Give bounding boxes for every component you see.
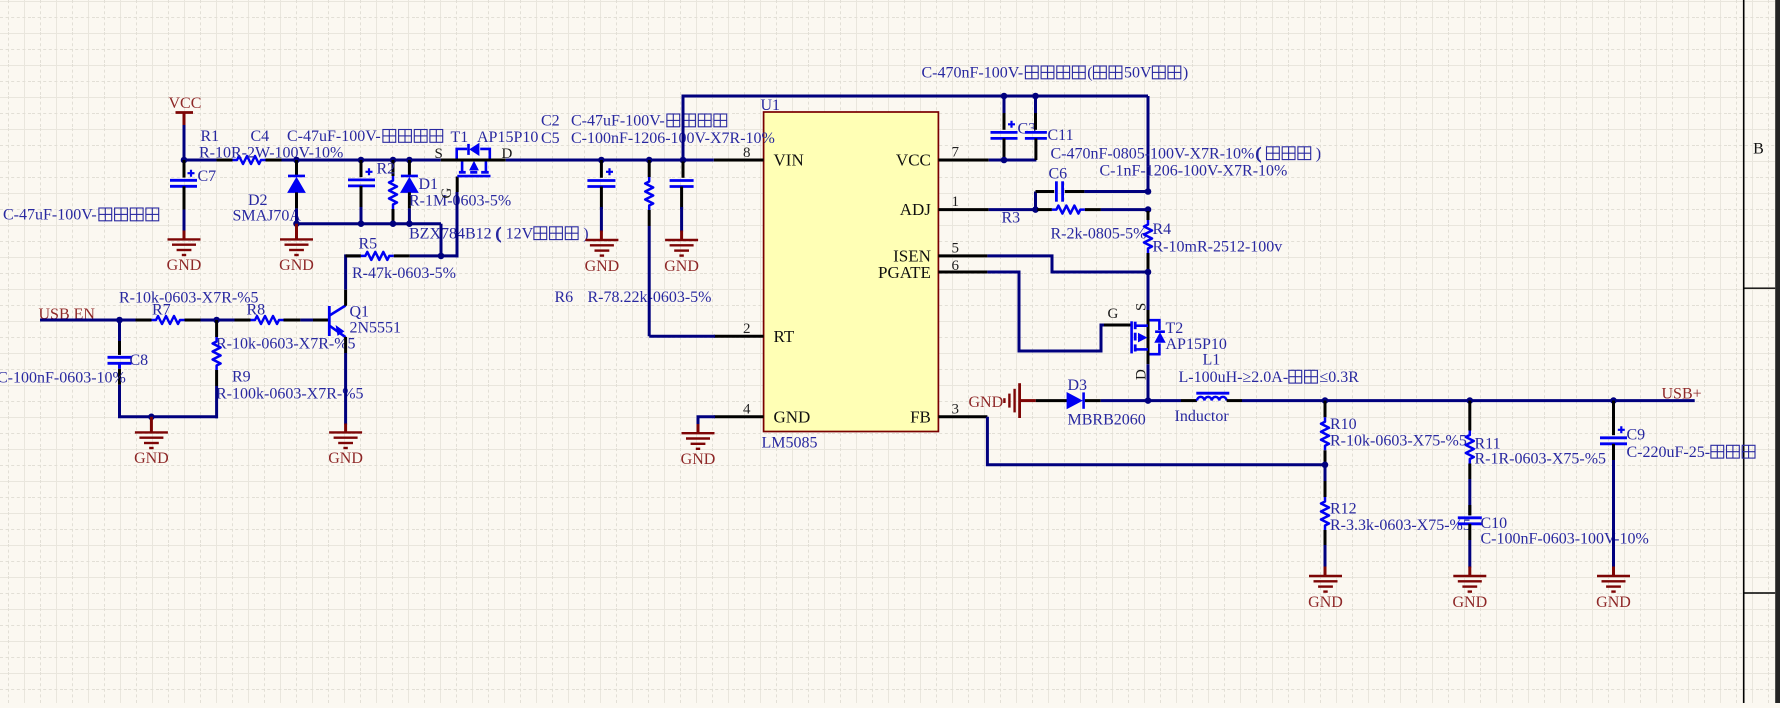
wire C6 to rail: [1084, 190, 1149, 193]
svg-text:MBRB2060: MBRB2060: [1068, 411, 1146, 428]
R6 value: [588, 289, 712, 306]
wire R11 to C10: [1468, 479, 1471, 516]
T2 pin label G: [1108, 306, 1119, 322]
wire C2 gnd: [600, 207, 603, 232]
node ADJ/C6: [1032, 206, 1039, 213]
C7 designator: [198, 168, 217, 185]
wire bottom rail: [297, 222, 442, 225]
wire R7 to R8: [201, 319, 235, 322]
zone divider lower: [1744, 592, 1776, 594]
U1 pin 4 GND: [714, 402, 811, 427]
svg-text:4: 4: [743, 402, 751, 418]
svg-text:): ): [1183, 65, 1188, 82]
zone letter B: [1753, 141, 1764, 158]
svg-text:C2: C2: [541, 113, 560, 130]
node C11 top: [1032, 93, 1039, 100]
wire C9 to gnd: [1612, 460, 1615, 568]
wire switch node to L1: [1148, 399, 1181, 402]
wire R5 row: [346, 254, 361, 257]
zone divider upper: [1744, 287, 1776, 289]
svg-text:R9: R9: [232, 368, 251, 385]
svg-text:AP15P10: AP15P10: [477, 129, 538, 146]
svg-text:D3: D3: [1068, 377, 1088, 394]
node C3 top: [1001, 93, 1008, 100]
svg-text:AP15P10: AP15P10: [1166, 336, 1227, 353]
C8 designator: [130, 352, 149, 369]
R7 designator: [152, 301, 171, 318]
ground Q1: [328, 432, 363, 467]
transistor T2 AP15P10 symbol: [1132, 320, 1165, 354]
wire T1 gate vertical: [456, 192, 459, 257]
T1 value AP15P10: [477, 129, 538, 146]
wire VCC pin to C11: [989, 159, 1037, 162]
wire R8 to Q1: [300, 319, 313, 322]
IC U1 LM5085 body: [764, 112, 939, 432]
svg-text:B: B: [1753, 141, 1764, 158]
svg-text:C11: C11: [1048, 127, 1074, 144]
svg-text:FB: FB: [910, 407, 931, 426]
svg-text:R8: R8: [247, 301, 266, 318]
wire USB_EN: [40, 319, 136, 322]
C7 comment: [3, 207, 159, 224]
sheet border right edge band: [1775, 0, 1780, 703]
svg-text:R-10k-0603-X7R-%5: R-10k-0603-X7R-%5: [119, 289, 259, 306]
svg-text:Inductor: Inductor: [1175, 408, 1230, 425]
D1 comment BZX784B12: [409, 225, 589, 242]
C11 designator: [1048, 127, 1074, 144]
svg-text:GND: GND: [664, 258, 699, 275]
node D2 bottom: [293, 220, 300, 227]
svg-text:R-3.3k-0603-X75-%5: R-3.3k-0603-X75-%5: [1330, 517, 1471, 534]
svg-text:5: 5: [952, 241, 960, 257]
resistor R11: [1466, 401, 1474, 479]
diode D1: [401, 160, 418, 208]
svg-text:1: 1: [952, 194, 960, 210]
svg-text:C-220uF-25-: C-220uF-25-: [1627, 444, 1711, 461]
wire top rail down to C6 node: [1147, 96, 1150, 192]
svg-text:C3: C3: [1018, 120, 1037, 137]
svg-text:3: 3: [952, 402, 960, 418]
Q1 collector pin: [344, 290, 347, 306]
svg-text:8: 8: [743, 145, 751, 161]
svg-text:R12: R12: [1330, 501, 1357, 518]
T2 pin label S rotated: [1134, 303, 1150, 311]
svg-text:C8: C8: [130, 352, 149, 369]
L1 comment: [1179, 369, 1360, 386]
node C8 top: [116, 317, 123, 324]
C6 designator: [1049, 165, 1068, 182]
U1 pin 5 ISEN: [893, 241, 987, 266]
T1 pin label S: [435, 146, 443, 162]
svg-text:R3: R3: [1002, 209, 1021, 226]
svg-text:ADJ: ADJ: [900, 200, 932, 219]
svg-text:): ): [1316, 145, 1321, 162]
R7 value: [119, 289, 259, 306]
R8 value: [216, 335, 356, 352]
svg-text:R-10k-0603-X75-%5: R-10k-0603-X75-%5: [1330, 432, 1467, 449]
top rail comment: [922, 65, 1189, 82]
svg-text:R-10k-0603-X7R-%5: R-10k-0603-X7R-%5: [216, 335, 356, 352]
R4 designator: [1153, 221, 1172, 238]
sheet border line: [1743, 0, 1745, 703]
wire R9 bottom: [215, 386, 218, 418]
wire output rail: [1242, 399, 1695, 402]
wire ISEN route: [987, 256, 1146, 272]
wire rail to T2 S: [1147, 272, 1150, 311]
ground C8: [134, 432, 169, 467]
R3 value: [1051, 225, 1147, 242]
T2 value AP15P10: [1166, 336, 1227, 353]
transistor T2 gate pin: [1104, 324, 1132, 327]
svg-text:GND: GND: [681, 451, 716, 468]
Q1 base pin: [313, 319, 329, 322]
capacitor C9: [1600, 401, 1627, 460]
R12 designator: [1330, 501, 1357, 518]
ground C2: [585, 240, 620, 275]
U1 pin 7 VCC: [896, 145, 989, 170]
resistor R8: [235, 316, 301, 324]
node VCC/C7: [181, 157, 188, 164]
svg-text:GND: GND: [1308, 594, 1343, 611]
wire Q1 collector up: [344, 254, 347, 289]
Q1 emitter pin: [344, 337, 347, 353]
node R9 top: [213, 317, 220, 324]
resistor R4: [1144, 211, 1152, 271]
svg-text:12V: 12V: [506, 225, 534, 242]
node D2 top: [293, 157, 300, 164]
R10 designator: [1330, 416, 1357, 433]
wire pin4 to gnd: [698, 417, 715, 425]
diode D2: [288, 160, 305, 208]
U1 pin 3 FB: [910, 402, 987, 427]
ground U1: [681, 433, 716, 468]
R12 value: [1330, 517, 1471, 534]
ground C5: [664, 240, 699, 275]
wire R12 to gnd: [1324, 545, 1327, 568]
R3 designator: [1002, 209, 1021, 226]
C9 comment: [1627, 444, 1756, 461]
inductor L1: [1181, 393, 1242, 400]
svg-text:GND: GND: [774, 407, 811, 426]
wire R5 right to T1 gate corner: [441, 254, 459, 257]
C10 designator: [1481, 515, 1508, 532]
resistor R3: [1037, 206, 1101, 214]
wire top rail up: [682, 96, 685, 162]
node C4 bottom: [358, 220, 365, 227]
svg-text:D1: D1: [419, 176, 439, 193]
C3 designator: [1018, 120, 1037, 137]
wire D1 bottom: [408, 208, 411, 223]
svg-text:G: G: [439, 188, 455, 199]
svg-text:USB+: USB+: [1662, 385, 1702, 402]
svg-text:(: (: [1256, 145, 1261, 162]
capacitor C8: [108, 320, 132, 385]
U1 pin 8 VIN: [714, 145, 804, 170]
D3 value MBRB2060: [1068, 411, 1146, 428]
node C4 top: [358, 157, 365, 164]
svg-text:C9: C9: [1627, 426, 1646, 443]
capacitor C3: [991, 96, 1018, 160]
svg-text:C-470nF-0805-100V-X7R-10%: C-470nF-0805-100V-X7R-10%: [1051, 145, 1255, 162]
wire C6 branch up: [1034, 192, 1037, 212]
capacitor C6: [1036, 181, 1085, 201]
svg-text:C-47uF-100V-: C-47uF-100V-: [287, 128, 381, 145]
D1 designator: [419, 176, 439, 193]
resistor R10: [1321, 401, 1329, 465]
wire T2 D to switch node: [1147, 364, 1150, 400]
Q1 gnd stub: [344, 424, 347, 434]
svg-text:GND: GND: [1596, 594, 1631, 611]
svg-text:R-100k-0603-X7R-%5: R-100k-0603-X7R-%5: [216, 385, 364, 402]
svg-text:50V: 50V: [1124, 65, 1152, 82]
wire R5 to gate node: [410, 254, 443, 257]
resistor R1: [217, 156, 282, 164]
svg-text:R10: R10: [1330, 416, 1357, 433]
svg-text:2: 2: [743, 321, 751, 337]
svg-text:C7: C7: [198, 168, 217, 185]
C10 comment: [1481, 530, 1649, 547]
svg-text:R-1R-0603-X75-%5: R-1R-0603-X75-%5: [1475, 451, 1607, 468]
svg-text:T1: T1: [451, 129, 469, 146]
capacitor C4: [348, 160, 375, 209]
svg-text:GND: GND: [969, 394, 1004, 411]
svg-text:R5: R5: [359, 235, 378, 252]
R11 designator: [1475, 436, 1501, 453]
node C9 top: [1610, 397, 1617, 404]
svg-text:C-47uF-100V-: C-47uF-100V-: [571, 113, 665, 130]
C8 gnd stub: [150, 417, 153, 433]
svg-text:R1: R1: [201, 128, 220, 145]
resistor R5: [346, 252, 410, 260]
svg-text:R6: R6: [555, 289, 574, 306]
capacitor C11: [1025, 96, 1047, 160]
C2 comment: [571, 113, 727, 130]
C5 gnd stub: [680, 231, 683, 241]
D2 designator: [248, 192, 268, 209]
svg-text:R-47k-0603-5%: R-47k-0603-5%: [352, 265, 456, 282]
svg-text:C5: C5: [541, 130, 560, 147]
T2 designator: [1166, 320, 1184, 337]
wire R3 to rail: [1101, 208, 1150, 211]
svg-text:C-100nF-0603-10%: C-100nF-0603-10%: [0, 369, 126, 386]
D3 designator: [1068, 377, 1088, 394]
node gate/R5: [438, 253, 445, 260]
svg-text:2N5551: 2N5551: [350, 320, 402, 337]
svg-text:GND: GND: [328, 450, 363, 467]
R1 designator: [201, 128, 220, 145]
wire C8 bottom: [120, 385, 219, 417]
node C5/top-rail: [680, 157, 687, 164]
svg-text:U1: U1: [761, 97, 781, 114]
svg-text:L1: L1: [1203, 352, 1221, 369]
wire Q1 emitter down: [344, 353, 347, 425]
wire D2 to bottom rail: [295, 208, 298, 225]
node R4/ISEN: [1145, 269, 1152, 276]
power port VCC: [169, 95, 202, 127]
R1 value: [199, 144, 343, 161]
C2 designator: [541, 113, 560, 130]
port USB+: [1662, 385, 1702, 402]
svg-text:D2: D2: [248, 192, 268, 209]
node R2 top: [390, 157, 397, 164]
D1 value: [409, 192, 511, 209]
svg-text:(: (: [496, 225, 501, 242]
U1 designator: [761, 97, 781, 114]
wire FB route: [987, 417, 1325, 465]
svg-text:GND: GND: [167, 257, 202, 274]
capacitor C2: [587, 160, 615, 209]
T1 designator: [451, 129, 469, 146]
node R2 bottom: [390, 220, 397, 227]
node switch: [1145, 397, 1152, 404]
ground R12: [1308, 576, 1343, 611]
svg-text:T2: T2: [1166, 320, 1184, 337]
wire C7 to gnd: [183, 210, 186, 232]
C11 comment line2: [1100, 162, 1288, 179]
transistor T1 AP15P10 symbol: [457, 144, 491, 176]
node R11 top: [1467, 397, 1474, 404]
node R6: [646, 157, 653, 164]
L1 designator: [1203, 352, 1221, 369]
ground C7: [167, 239, 202, 274]
svg-text:L-100uH-≥2.0A-: L-100uH-≥2.0A-: [1179, 369, 1289, 386]
svg-text:R-10mR-2512-100v: R-10mR-2512-100v: [1153, 238, 1283, 255]
U1 pin 6 PGATE: [878, 258, 987, 282]
R6 designator: [555, 289, 574, 306]
wire C10 to gnd: [1468, 540, 1471, 568]
svg-text:GND: GND: [134, 450, 169, 467]
D2 gnd stub: [295, 224, 298, 240]
svg-text:≤0.3R: ≤0.3R: [1320, 369, 1360, 386]
C11 comment line1: [1051, 145, 1322, 162]
transistor Q1 2N5551: [329, 306, 345, 338]
node D1 bottom: [406, 220, 413, 227]
T1 pin label G rotated: [439, 188, 455, 199]
C5 designator: [541, 130, 560, 147]
wire C5 gnd: [680, 207, 683, 232]
ground C9: [1596, 576, 1631, 611]
svg-text:R2: R2: [377, 161, 396, 178]
C9 designator: [1627, 426, 1646, 443]
svg-text:C-100nF-0603-100V-10%: C-100nF-0603-100V-10%: [1481, 530, 1649, 547]
svg-text:C-470nF-100V-: C-470nF-100V-: [922, 65, 1024, 82]
R8 designator: [247, 301, 266, 318]
R12 gnd stub: [1324, 567, 1327, 577]
svg-text:R-2k-0805-5%: R-2k-0805-5%: [1051, 225, 1147, 242]
svg-text:VCC: VCC: [896, 151, 931, 170]
svg-text:RT: RT: [774, 327, 795, 346]
resistor R6: [645, 160, 653, 226]
svg-text:C-100nF-1206-100V-X7R-10%: C-100nF-1206-100V-X7R-10%: [571, 130, 775, 147]
wire PGATE route: [987, 272, 1106, 351]
R4 value: [1153, 238, 1283, 255]
node FB junction: [1322, 462, 1329, 469]
node C3 bottom: [1001, 157, 1008, 164]
T2 pin label D rotated: [1134, 369, 1150, 380]
node R3/rail: [1145, 206, 1152, 213]
D2 value SMAJ70A: [233, 208, 302, 225]
svg-text:6: 6: [952, 258, 960, 274]
svg-text:GND: GND: [279, 257, 314, 274]
svg-text:G: G: [1108, 306, 1119, 322]
svg-text:GND: GND: [1452, 594, 1487, 611]
ground C10: [1452, 576, 1487, 611]
resistor R9: [213, 320, 221, 386]
transistor T2 S pin: [1147, 310, 1150, 364]
node C2: [598, 157, 605, 164]
C2 gnd stub: [600, 231, 603, 241]
wire R6 to RT: [649, 226, 715, 336]
svg-text:LM5085: LM5085: [762, 435, 818, 452]
R2 designator: [377, 161, 396, 178]
svg-text:VCC: VCC: [169, 95, 202, 112]
power gnd bar symbol: [1004, 383, 1035, 418]
node gnd junction: [148, 414, 155, 421]
capacitor C10: [1458, 505, 1482, 540]
capacitor C7: [170, 160, 197, 210]
wire rail R1 to T1: [282, 159, 441, 162]
wire bottom rail corner down: [440, 224, 443, 256]
T1 pin label D: [502, 146, 513, 162]
diode D3: [1036, 392, 1101, 408]
R5 value: [352, 265, 456, 282]
svg-text:7: 7: [952, 145, 960, 161]
C4 comment: [287, 128, 443, 145]
wire ADJ to R3: [989, 208, 1038, 211]
svg-text:R4: R4: [1153, 221, 1172, 238]
svg-text:R-1M-0603-5%: R-1M-0603-5%: [409, 192, 511, 209]
wire VCC to rail: [183, 125, 186, 162]
svg-text:C-47uF-100V-: C-47uF-100V-: [3, 207, 97, 224]
svg-text:C6: C6: [1049, 165, 1068, 182]
resistor R2: [389, 160, 397, 224]
svg-text:PGATE: PGATE: [878, 263, 931, 282]
Q1 value 2N5551: [350, 320, 402, 337]
wire top rail horizontal: [682, 95, 1149, 98]
wire rail to VIN: [506, 159, 714, 162]
port USB_EN: [39, 306, 96, 323]
capacitor C5: [670, 160, 694, 209]
svg-text:GND: GND: [585, 258, 620, 275]
L1 value Inductor: [1175, 408, 1230, 425]
wire D3 to switch node: [1101, 399, 1148, 402]
R10 value: [1330, 432, 1467, 449]
wire C4 bottom: [360, 207, 363, 224]
power gnd label: [969, 394, 1004, 411]
R11 value: [1475, 451, 1607, 468]
U1 pin 2 RT: [714, 321, 795, 346]
C8 comment: [0, 369, 126, 386]
resistor R12: [1321, 465, 1329, 546]
C10 gnd stub: [1468, 567, 1471, 577]
node C6/rail: [1145, 188, 1152, 195]
wire rail left: [184, 159, 217, 162]
svg-text:VIN: VIN: [774, 151, 804, 170]
node R10 top: [1322, 397, 1329, 404]
C5 comment: [571, 130, 775, 147]
svg-text:(: (: [1087, 65, 1092, 82]
resistor R7: [136, 316, 201, 324]
transistor T1 gate pin: [456, 177, 459, 193]
U1 pin 1 ADJ: [900, 194, 989, 219]
U1 value LM5085: [762, 435, 818, 452]
C4 designator: [251, 128, 270, 145]
svg-text:C4: C4: [251, 128, 270, 145]
svg-text:S: S: [1134, 303, 1150, 311]
C9 gnd stub: [1612, 567, 1615, 577]
svg-text:BZX784B12: BZX784B12: [409, 225, 492, 242]
Q1 designator: [350, 303, 370, 320]
